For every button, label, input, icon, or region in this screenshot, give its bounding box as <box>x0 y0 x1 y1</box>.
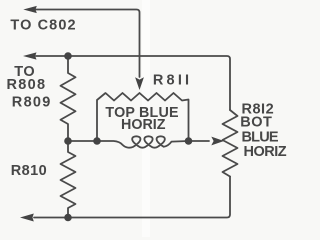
arrowhead R811 wiper (down) <box>135 77 144 90</box>
junction dot bottom wire <box>64 214 72 222</box>
wire mid horizontal left <box>68 140 97 142</box>
svg-text:TO C802: TO C802 <box>10 18 76 34</box>
faint scan band <box>142 0 150 237</box>
arrowhead R812 wiper (right) <box>211 137 224 146</box>
junction dot box right bottom <box>185 137 193 145</box>
svg-text:HORIZ: HORIZ <box>244 144 287 160</box>
resistor R809 <box>61 56 76 141</box>
arrowhead bottom left <box>20 214 34 222</box>
wire second horizontal to R808 and right corner down <box>36 56 230 110</box>
wire top horizontal to C802 and down to R811 wiper <box>36 10 140 78</box>
potentiometer R811 <box>97 93 189 141</box>
junction dot box left bottom <box>93 137 101 145</box>
svg-text:BOT: BOT <box>240 115 272 131</box>
svg-text:BLUE: BLUE <box>242 129 279 145</box>
junction dot at R809/R810 mid <box>64 137 72 145</box>
svg-text:R808: R808 <box>7 77 47 93</box>
arrowhead to C802 <box>23 6 37 13</box>
wire mid horizontal right to R812 wiper <box>189 140 210 142</box>
arrowhead to R808 <box>23 52 37 59</box>
wire bottom right corner and bottom horizontal <box>34 177 230 218</box>
svg-text:R809: R809 <box>12 94 52 110</box>
svg-text:R8II: R8II <box>153 73 192 89</box>
potentiometer R812 <box>223 110 238 177</box>
inductor L (top blue horiz coil) <box>97 136 189 147</box>
junction dot at R809 top <box>64 52 72 60</box>
resistor R810 <box>61 141 76 218</box>
svg-text:R810: R810 <box>11 163 47 179</box>
svg-text:HORIZ: HORIZ <box>121 117 166 133</box>
